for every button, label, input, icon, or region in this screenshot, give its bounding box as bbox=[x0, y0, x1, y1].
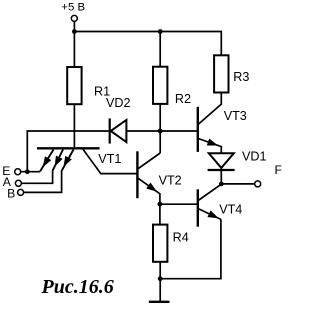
svg-text:VT4: VT4 bbox=[219, 202, 242, 216]
VT1 emitter 1 bbox=[39, 150, 53, 172]
svg-text:R3: R3 bbox=[233, 70, 249, 84]
wire input A bbox=[21, 171, 52, 184]
VT2 collector bbox=[138, 153, 161, 169]
wire VD2 anode to VT3 base bbox=[126, 130, 197, 132]
wire input B bbox=[23, 171, 61, 193]
node terminal A bbox=[15, 180, 21, 186]
VT1 emitter 3 bbox=[60, 150, 73, 171]
node +5V supply terminal bbox=[71, 15, 77, 21]
wire VT4 base bbox=[160, 203, 198, 205]
transistor VT2 base bar bbox=[136, 151, 138, 198]
node junction VD2/R2/VT3 bbox=[158, 129, 163, 134]
svg-text:R4: R4 bbox=[173, 230, 189, 244]
svg-text:Рис.16.6: Рис.16.6 bbox=[41, 276, 114, 298]
svg-text:VT1: VT1 bbox=[98, 152, 121, 166]
transistor VT1 multi-emitter base bar bbox=[37, 147, 100, 149]
node junction E wire bbox=[25, 169, 30, 174]
wire rail to R2 bbox=[159, 32, 161, 67]
wire left branch to VD2 cathode bbox=[27, 131, 108, 172]
transistor VT4 base bar bbox=[197, 189, 199, 226]
resistor R1 bbox=[67, 67, 81, 104]
resistor R3 bbox=[214, 55, 228, 92]
wire supply drop to R1 bbox=[73, 21, 75, 67]
wire R4 bottom to ground bbox=[159, 262, 161, 301]
wire to output F bbox=[221, 183, 255, 185]
diode VD2 bbox=[110, 118, 127, 143]
wire R1 bottom to VT1 base bbox=[73, 104, 75, 147]
node junction VD1 / F / VT4 collector bbox=[219, 182, 224, 187]
wire input E bbox=[20, 171, 40, 173]
node junction bottom bbox=[158, 276, 163, 281]
VT2 emitter bbox=[138, 178, 160, 204]
node junction top-left bbox=[72, 29, 77, 34]
VT4 collector bbox=[198, 184, 221, 200]
node junction VT2 emitter / R4 / VT4 base bbox=[158, 202, 163, 207]
wire to R4 bbox=[159, 204, 161, 224]
wire R2 bottom to VT2 collector bbox=[159, 104, 161, 153]
VT3 collector to R3 bbox=[198, 93, 221, 125]
svg-text:+5 В: +5 В bbox=[61, 2, 85, 14]
VT4 emitter bbox=[198, 209, 221, 222]
svg-text:VT3: VT3 bbox=[224, 109, 247, 123]
svg-text:B: B bbox=[7, 187, 15, 201]
node terminal B bbox=[18, 189, 24, 195]
VT1 emitter 2 bbox=[51, 150, 63, 171]
diode VD1 bbox=[208, 153, 235, 184]
node junction top-middle bbox=[158, 29, 163, 34]
svg-text:F: F bbox=[275, 163, 282, 177]
svg-text:VD2: VD2 bbox=[106, 96, 131, 110]
node terminal F bbox=[255, 181, 261, 187]
wire VT4 emitter return bbox=[160, 219, 221, 278]
svg-text:VD1: VD1 bbox=[242, 150, 267, 164]
node terminal E bbox=[15, 169, 21, 175]
svg-text:R2: R2 bbox=[175, 92, 191, 106]
ground bbox=[149, 301, 170, 303]
resistor R2 bbox=[153, 67, 167, 104]
transistor VT3 base bar bbox=[197, 107, 199, 152]
wire VT1 collector to VT2 base bbox=[83, 149, 137, 173]
resistor R4 bbox=[153, 225, 167, 262]
VT3 emitter bbox=[198, 139, 221, 154]
svg-text:VT2: VT2 bbox=[159, 173, 182, 187]
wire top rail bbox=[74, 32, 221, 56]
